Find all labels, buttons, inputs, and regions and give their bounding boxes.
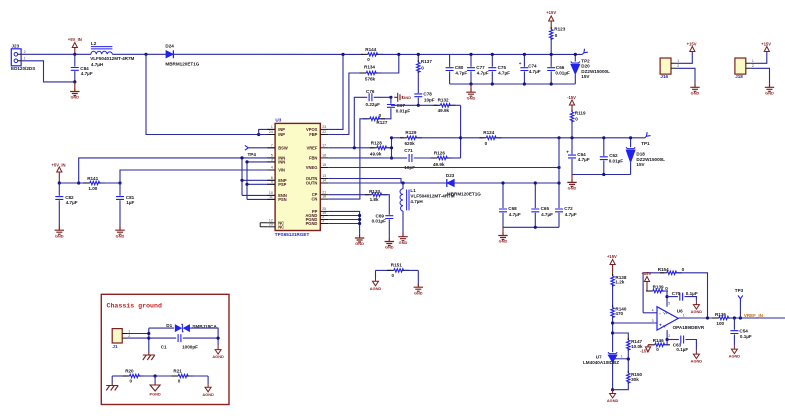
svg-text:0.01µF: 0.01µF	[555, 71, 570, 76]
svg-text:0.01µF: 0.01µF	[609, 159, 624, 164]
power +15V J18	[764, 47, 769, 52]
svg-text:Chassis ground: Chassis ground	[107, 303, 162, 310]
svg-text:0: 0	[130, 379, 133, 384]
svg-text:+5V_IN: +5V_IN	[51, 162, 65, 167]
wire AGND pin	[328, 215, 359, 217]
svg-text:GND: GND	[402, 95, 411, 100]
chassis ground symbol lower	[106, 376, 118, 391]
svg-text:TP1: TP1	[641, 141, 650, 146]
capacitor C72	[555, 183, 577, 227]
resistor R140	[611, 305, 627, 318]
svg-text:C78: C78	[423, 91, 432, 96]
inductor L2	[90, 41, 134, 67]
ground AGND bypass	[691, 301, 703, 314]
svg-text:0.1µF: 0.1µF	[676, 347, 688, 352]
svg-text:AGND: AGND	[202, 392, 214, 397]
ground GND sideways	[394, 93, 402, 102]
connector J18	[735, 58, 754, 79]
wire J18 pin2 to GND	[751, 68, 770, 83]
svg-text:0: 0	[379, 113, 382, 118]
svg-text:C64: C64	[577, 152, 586, 157]
capacitor C76	[354, 89, 391, 148]
ground AGND R151 left	[370, 270, 382, 291]
svg-text:1: 1	[24, 57, 26, 61]
svg-text:NC: NC	[278, 224, 284, 229]
ground GND below C81	[115, 226, 124, 238]
junction node B	[390, 146, 393, 149]
svg-text:C1: C1	[161, 345, 167, 350]
resistor R127	[363, 113, 388, 125]
svg-text:18: 18	[322, 195, 326, 199]
wire VIN run	[120, 170, 275, 183]
svg-text:14: 14	[322, 179, 326, 183]
svg-text:5: 5	[668, 301, 670, 305]
svg-text:R137: R137	[421, 59, 432, 64]
wire R127 to CN	[328, 119, 367, 199]
ground AGND C54	[729, 345, 741, 358]
wire J1 pin1	[127, 333, 149, 335]
U3 right pin stubs and names	[305, 125, 328, 226]
svg-text:FBN: FBN	[309, 155, 317, 160]
wire J23 pin1 to ground node	[21, 61, 75, 82]
wire PP group	[328, 211, 359, 233]
junction U7 bottom	[611, 388, 614, 391]
svg-text:INN: INN	[278, 159, 285, 164]
resistor R128	[370, 141, 392, 157]
svg-text:C76: C76	[366, 89, 375, 94]
resistor R137	[417, 54, 433, 73]
svg-text:1µF: 1µF	[126, 200, 134, 205]
wire CP row	[328, 194, 369, 196]
wire TVS to AGND corner	[190, 328, 219, 346]
svg-text:ED120/2DS: ED120/2DS	[11, 66, 35, 71]
svg-text:GND: GND	[765, 91, 774, 96]
junction bottom rail	[469, 82, 472, 85]
wire FBN to C71	[392, 157, 408, 159]
svg-text:PGND: PGND	[306, 221, 318, 226]
diode D23	[446, 173, 481, 196]
wire R126 to node C	[449, 157, 461, 159]
ground GND cap bank	[466, 84, 475, 100]
svg-text:R119: R119	[575, 111, 586, 116]
svg-text:D1: D1	[166, 323, 172, 328]
svg-text:4: 4	[652, 309, 654, 313]
wire rail to caps	[379, 53, 582, 55]
svg-text:D18: D18	[636, 151, 645, 156]
diode D24	[165, 44, 199, 67]
svg-text:R21: R21	[173, 369, 182, 374]
power +15V opamp supply	[641, 271, 651, 291]
svg-text:V+: V+	[663, 312, 667, 316]
ground GND -15V bank	[567, 175, 576, 191]
svg-text:TP3: TP3	[735, 288, 744, 293]
svg-text:17: 17	[322, 143, 326, 147]
capacitor C65	[531, 183, 553, 227]
resistor R119	[567, 95, 586, 138]
svg-text:C54: C54	[739, 328, 748, 333]
resistor R134	[360, 65, 382, 82]
svg-text:100: 100	[716, 321, 724, 326]
wire R146 to V-	[666, 344, 667, 346]
svg-text:+: +	[659, 324, 662, 329]
wire plus input row	[613, 322, 657, 324]
capacitor C63	[667, 336, 696, 353]
wire C1 row	[149, 337, 176, 339]
svg-text:620k: 620k	[405, 141, 416, 146]
svg-text:1.00: 1.00	[88, 186, 97, 191]
resistor R138	[611, 274, 627, 287]
svg-text:24: 24	[269, 130, 273, 134]
capacitor C82	[55, 183, 77, 226]
svg-text:J1: J1	[112, 344, 118, 349]
wire C1 to corner	[183, 337, 218, 339]
wire enable bus B	[246, 162, 248, 200]
chassis ground symbol upper	[143, 352, 155, 360]
wire -15V rail	[461, 137, 484, 139]
wire enable bus A	[241, 158, 243, 196]
svg-text:C66: C66	[556, 65, 565, 70]
wire PGND pin3	[328, 223, 359, 225]
svg-text:VIN: VIN	[278, 168, 285, 173]
svg-text:0.1µF: 0.1µF	[740, 334, 752, 339]
svg-text:R123: R123	[554, 27, 565, 32]
capacitor C71	[404, 148, 415, 170]
wire PGND pin2	[328, 219, 359, 221]
junction bank bottom	[602, 173, 605, 176]
svg-text:U7: U7	[596, 355, 602, 360]
svg-text:1: 1	[621, 355, 623, 359]
wire PSP	[247, 183, 275, 185]
svg-text:R134: R134	[364, 65, 375, 70]
svg-text:2: 2	[677, 64, 679, 68]
svg-text:0: 0	[682, 267, 685, 272]
svg-text:+15V: +15V	[761, 42, 771, 47]
svg-text:GND: GND	[399, 240, 408, 245]
wire J16 pin2 to GND	[676, 68, 695, 83]
junction C78 bottom	[417, 104, 420, 107]
svg-text:R129: R129	[405, 130, 416, 135]
svg-text:3: 3	[652, 319, 654, 323]
resistor R139	[646, 284, 668, 292]
junction switch node	[144, 53, 147, 56]
svg-text:R136: R136	[715, 312, 726, 317]
svg-text:J18: J18	[735, 74, 743, 79]
svg-text:GND: GND	[568, 186, 577, 191]
wire R20 to PGND node	[141, 375, 176, 377]
svg-text:C74: C74	[528, 64, 537, 69]
power -15V opamp	[640, 345, 652, 354]
svg-text:PGND: PGND	[149, 392, 160, 397]
wire INP pin1 jog	[259, 129, 275, 134]
svg-text:576k: 576k	[365, 77, 376, 82]
connector J23	[11, 43, 35, 71]
wire R138 to R140	[612, 285, 614, 308]
capacitor C84	[71, 54, 93, 82]
svg-text:R146: R146	[653, 338, 664, 343]
svg-text:R124: R124	[483, 130, 494, 135]
svg-text:470: 470	[615, 311, 623, 316]
svg-text:1: 1	[683, 314, 685, 318]
test point TP2	[581, 49, 588, 56]
wire R132 to node C	[452, 104, 461, 106]
resistor R136	[712, 312, 734, 326]
power +5V_IN mid	[51, 162, 65, 183]
ground GND below C82	[55, 226, 64, 238]
svg-text:4.7µF: 4.7µF	[565, 212, 577, 217]
svg-text:LM4040A10IDBZ: LM4040A10IDBZ	[583, 360, 619, 365]
wire filter row	[59, 182, 87, 184]
svg-text:20: 20	[269, 222, 273, 226]
svg-text:22: 22	[322, 130, 326, 134]
resistor R129	[392, 130, 423, 146]
svg-text:C72: C72	[564, 206, 573, 211]
resistor R20	[123, 369, 145, 384]
ground GND below L1	[398, 233, 407, 245]
test point TP1	[641, 132, 650, 146]
svg-text:11: 11	[269, 195, 273, 199]
test point TP3	[735, 288, 744, 318]
svg-text:4.7µF: 4.7µF	[455, 71, 467, 76]
svg-text:4.7µF: 4.7µF	[477, 71, 489, 76]
wire R132 row	[391, 104, 438, 106]
ground AGND lower	[202, 376, 214, 397]
svg-text:0: 0	[575, 116, 578, 121]
ground GND below C84	[70, 82, 79, 100]
svg-text:C71: C71	[404, 148, 413, 153]
svg-text:49.9k: 49.9k	[370, 152, 382, 157]
svg-text:R139: R139	[653, 284, 664, 289]
junction INP pins	[257, 133, 260, 136]
junction L1 tap	[401, 181, 404, 184]
svg-text:+15V: +15V	[641, 271, 651, 276]
wire lower row left	[112, 375, 127, 377]
svg-text:0: 0	[421, 66, 424, 71]
svg-text:R132: R132	[438, 98, 449, 103]
svg-text:2: 2	[668, 334, 670, 338]
svg-text:4.7µF: 4.7µF	[529, 69, 541, 74]
junction R147 row	[611, 331, 614, 334]
wire R147 branch	[613, 333, 629, 340]
svg-text:GND: GND	[385, 245, 394, 250]
svg-text:15V: 15V	[581, 74, 590, 79]
svg-text:4.7µF: 4.7µF	[578, 157, 590, 162]
junction C54	[733, 316, 736, 319]
svg-text:PSN: PSN	[278, 197, 286, 202]
svg-text:D23: D23	[446, 173, 455, 178]
wire J1 pin2	[127, 337, 149, 339]
svg-text:TPS65131RGET: TPS65131RGET	[275, 232, 310, 237]
svg-text:V-: V-	[663, 324, 666, 328]
wire R139 to V+	[664, 291, 667, 307]
svg-text:0.01µF: 0.01µF	[372, 219, 387, 224]
wire output row	[678, 317, 716, 319]
resistor R147	[627, 338, 643, 351]
svg-text:2: 2	[752, 64, 754, 68]
svg-text:AGND: AGND	[370, 286, 382, 291]
svg-text:2: 2	[24, 50, 26, 54]
svg-text:4.7µF: 4.7µF	[81, 71, 93, 76]
connector J16	[660, 58, 679, 79]
resistor R141	[83, 176, 105, 191]
svg-text:7: 7	[271, 143, 273, 147]
svg-text:VNEG: VNEG	[306, 165, 318, 170]
svg-text:+15V: +15V	[687, 42, 697, 47]
node +5V_IN junction	[73, 53, 76, 56]
svg-text:R154: R154	[658, 267, 669, 272]
svg-text:1: 1	[677, 59, 679, 63]
zener U7 LM4040	[583, 352, 628, 390]
svg-text:C80: C80	[455, 65, 464, 70]
junction top rail caps	[469, 53, 472, 56]
resistor R123	[546, 10, 565, 55]
svg-text:AGND: AGND	[607, 398, 619, 403]
ground AGND U7	[607, 390, 619, 403]
power +15V opamp	[607, 254, 617, 276]
svg-text:L2: L2	[91, 41, 97, 46]
junction V+ bypass	[665, 295, 668, 298]
diode D1 TVS	[166, 323, 217, 332]
svg-text:C70: C70	[672, 291, 681, 296]
svg-text:R151: R151	[391, 263, 402, 268]
svg-text:3: 3	[271, 158, 273, 162]
capacitor C54	[730, 318, 752, 345]
junction R137 rail	[417, 53, 420, 56]
U3 left pin stubs and names	[260, 125, 288, 229]
wire ENN	[242, 194, 275, 196]
svg-text:R133: R133	[369, 189, 380, 194]
svg-text:1.2k: 1.2k	[615, 280, 624, 285]
svg-text:+5V_IN: +5V_IN	[68, 37, 82, 42]
svg-text:4.7µF: 4.7µF	[66, 200, 78, 205]
wire INP feed	[146, 54, 259, 134]
capacitor C70 bypass	[667, 291, 698, 301]
junction TP3	[739, 316, 742, 319]
ground GND below C69	[385, 237, 394, 249]
junction filter nodes	[58, 181, 61, 184]
junction C76 node	[389, 96, 392, 99]
svg-text:0: 0	[367, 57, 370, 62]
wire V- supply	[666, 330, 668, 345]
wire D23 to neg caps	[454, 182, 559, 184]
svg-text:U3: U3	[275, 118, 281, 123]
svg-text:3: 3	[322, 219, 324, 223]
svg-text:C77: C77	[476, 65, 485, 70]
svg-text:C68: C68	[508, 206, 517, 211]
svg-text:J16: J16	[660, 74, 668, 79]
svg-text:GND: GND	[70, 95, 79, 100]
svg-text:GND: GND	[467, 95, 476, 100]
junction VREF-C76	[353, 146, 356, 149]
wire R134 to rail	[378, 54, 399, 73]
capacitor C77	[467, 54, 489, 84]
svg-text:C62: C62	[609, 153, 618, 158]
wire minus input row	[643, 312, 657, 314]
junction V- bypass	[666, 338, 669, 341]
svg-text:VREF_IN: VREF_IN	[744, 313, 763, 318]
wire vertical to -15V rail	[558, 138, 560, 183]
wire J18 pin1 to +15V	[751, 52, 767, 64]
resistor R126	[431, 150, 453, 167]
connector J1	[112, 329, 130, 349]
svg-text:4.7µF: 4.7µF	[509, 212, 521, 217]
wire node C vertical	[460, 105, 462, 158]
resistor R144	[361, 47, 383, 62]
wire -15V bank bottom	[572, 174, 631, 176]
svg-text:+: +	[519, 61, 522, 66]
wire TVS row	[149, 327, 174, 329]
wire J16 pin1 to +15V	[676, 52, 692, 64]
wire INN pin3	[247, 161, 275, 163]
svg-text:4.7µH: 4.7µH	[91, 62, 104, 67]
svg-text:-15V: -15V	[567, 95, 576, 100]
junction R134 rail	[397, 53, 400, 56]
svg-text:DZ2W15000L: DZ2W15000L	[636, 157, 665, 162]
resistor R146	[648, 338, 670, 352]
svg-text:4.7µH: 4.7µH	[410, 199, 423, 204]
capacitor C67	[381, 97, 410, 119]
svg-text:+15V: +15V	[607, 254, 617, 259]
svg-text:4: 4	[271, 166, 273, 170]
svg-text:R126: R126	[434, 150, 445, 155]
svg-text:+15V: +15V	[546, 10, 556, 15]
junction PP group	[358, 214, 361, 217]
wire R128 to node B	[388, 147, 392, 149]
wire L2 to D24	[112, 53, 166, 55]
wire R150 to bottom	[613, 382, 629, 390]
junction U7 tap	[627, 357, 630, 360]
resistor R133	[365, 189, 387, 202]
svg-text:23: 23	[322, 125, 326, 129]
capacitor C62	[600, 138, 623, 175]
junction plus row	[611, 321, 614, 324]
capacitor C1	[161, 334, 198, 350]
svg-text:0: 0	[178, 379, 181, 384]
resistor R154	[658, 267, 685, 275]
wire FBP to R134	[328, 73, 363, 135]
svg-text:OPA189IDBVR: OPA189IDBVR	[673, 325, 705, 330]
svg-text:1.8k: 1.8k	[370, 197, 379, 202]
svg-text:0.1µF: 0.1µF	[686, 291, 698, 296]
svg-text:U6: U6	[677, 308, 683, 313]
svg-text:MBRM120ET1G: MBRM120ET1G	[165, 61, 199, 66]
svg-text:C65: C65	[541, 206, 550, 211]
wire OUTN row	[328, 182, 447, 184]
capacitor C81	[116, 183, 135, 226]
ground PGND	[149, 376, 160, 397]
wire neg cap bottom rail	[503, 226, 559, 228]
op-amp U6 OPA189IDBVR	[652, 301, 705, 338]
test point TP4	[245, 145, 275, 157]
svg-text:4.7µF: 4.7µF	[498, 71, 510, 76]
junction -15V rail	[557, 136, 560, 139]
svg-text:GND: GND	[116, 233, 125, 238]
ground AGND chassis	[212, 346, 224, 359]
wire FBN row	[328, 157, 391, 159]
wire OUTN pin13	[328, 179, 401, 184]
svg-text:1000pF: 1000pF	[182, 345, 198, 350]
capacitor C68	[499, 183, 521, 227]
svg-text:L1: L1	[410, 188, 416, 193]
svg-text:AGND: AGND	[212, 354, 224, 359]
svg-text:GND: GND	[691, 91, 700, 96]
wire R141 to C81 node	[101, 182, 120, 184]
svg-text:R20: R20	[125, 369, 134, 374]
svg-text:AGND: AGND	[691, 359, 703, 364]
svg-text:10pF: 10pF	[424, 98, 435, 103]
svg-text:49.9k: 49.9k	[433, 162, 445, 167]
wire INN pin5	[242, 157, 275, 159]
svg-text:GND: GND	[414, 290, 423, 295]
